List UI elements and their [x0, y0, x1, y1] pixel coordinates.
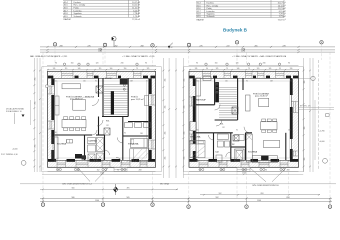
svg-text:150: 150	[124, 68, 127, 70]
stair stringer dark bar	[111, 91, 114, 114]
svg-text:Łazienka: Łazienka	[74, 10, 83, 12]
wc fixtures left mid	[125, 123, 151, 128]
left margin bubble	[21, 161, 26, 166]
svg-text:140: 140	[78, 68, 81, 70]
bathroom fixtures left building	[88, 138, 104, 162]
svg-text:11,21 m²: 11,21 m²	[132, 7, 140, 10]
svg-text:90: 90	[145, 62, 147, 64]
couch right building	[246, 95, 251, 111]
svg-text:12: 12	[171, 47, 173, 49]
svg-text:Łazienka: Łazienka	[207, 11, 216, 13]
svg-text:Budynek B: Budynek B	[223, 28, 248, 33]
svg-text:+0,000: +0,000	[319, 141, 325, 143]
svg-text:298: 298	[60, 45, 63, 47]
svg-text:205: 205	[54, 161, 57, 163]
svg-text:75: 75	[226, 68, 228, 70]
living room table right building	[259, 98, 269, 106]
svg-text:90: 90	[206, 68, 208, 70]
svg-text:90: 90	[146, 81, 148, 83]
svg-text:pow. 11,21 m²: pow. 11,21 m²	[131, 98, 144, 101]
svg-text:132: 132	[106, 125, 109, 127]
svg-text:130: 130	[290, 68, 293, 70]
wardrobe right building top-left room	[196, 78, 201, 96]
stairs right building	[219, 87, 237, 117]
svg-text:KUCHNIA: KUCHNIA	[57, 143, 67, 146]
svg-text:90: 90	[288, 161, 290, 163]
svg-text:265: 265	[35, 102, 37, 105]
svg-text:135: 135	[53, 68, 56, 70]
svg-text:72,19 m²: 72,19 m²	[278, 18, 286, 21]
svg-text:268: 268	[130, 81, 133, 83]
svg-text:365: 365	[304, 158, 306, 161]
windows left building top (frame line pairs)	[62, 72, 142, 79]
bottom grid chain	[40, 198, 332, 201]
wall hatch band left building	[48, 71, 156, 167]
small level marks on top band	[168, 46, 170, 49]
wall poché segments right building	[189, 76, 298, 162]
svg-text:HOL: HOL	[106, 121, 110, 123]
svg-text:115: 115	[99, 68, 102, 70]
top dimension chain lines	[40, 47, 335, 52]
svg-text:120: 120	[96, 62, 99, 64]
svg-text:120: 120	[257, 68, 260, 70]
svg-text:268: 268	[140, 133, 143, 135]
svg-text:230: 230	[263, 62, 266, 64]
baluster circles	[123, 80, 125, 82]
svg-text:90: 90	[265, 170, 267, 172]
svg-text:POZ. TERENU -0,30: POZ. TERENU -0,30	[1, 154, 18, 156]
wardrobe strip left wall	[55, 96, 59, 115]
svg-text:1,73 m²: 1,73 m²	[279, 15, 286, 18]
svg-text:WIATROŁAP: WIATROŁAP	[196, 99, 207, 102]
roof overhang outline right	[184, 67, 304, 172]
svg-text:345: 345	[164, 106, 166, 109]
survey diamond left	[113, 184, 118, 195]
svg-text:+0,000: +0,000	[12, 149, 18, 151]
svg-text:RAZEM: RAZEM	[197, 18, 204, 21]
svg-text:ŁAZ.: ŁAZ.	[216, 151, 220, 154]
svg-text:95: 95	[279, 68, 281, 70]
svg-text:1,73 m²: 1,73 m²	[133, 15, 140, 18]
vent stack left building	[96, 86, 103, 93]
svg-text:SP. WYL. 2%: SP. WYL. 2%	[300, 106, 311, 108]
svg-text:HOL: HOL	[220, 124, 224, 126]
right vertical dimension lines	[304, 58, 319, 172]
svg-text:281: 281	[255, 45, 258, 47]
svg-text:115: 115	[65, 68, 68, 70]
vent stack right building	[232, 107, 238, 114]
svg-text:140: 140	[237, 68, 240, 70]
room labels right building	[190, 92, 270, 153]
svg-text:268: 268	[288, 130, 291, 132]
wall hatch band right building	[189, 71, 299, 167]
wc/pantry fixtures right building	[235, 135, 245, 162]
svg-text:90: 90	[196, 62, 198, 64]
svg-text:90: 90	[124, 133, 126, 135]
svg-text:+2,780: +2,780	[319, 130, 325, 132]
svg-text:10,17 m²: 10,17 m²	[132, 1, 140, 4]
beds left building	[130, 149, 149, 162]
svg-text:90: 90	[288, 62, 290, 64]
svg-text:265: 265	[35, 78, 37, 81]
svg-text:365: 365	[304, 81, 306, 84]
dimension row below right building	[199, 170, 289, 172]
svg-text:362: 362	[54, 81, 57, 83]
svg-text:152: 152	[86, 161, 89, 163]
svg-text:Schowek: Schowek	[207, 16, 215, 18]
svg-text:135: 135	[195, 68, 198, 70]
svg-text:75: 75	[136, 68, 138, 70]
windows right building bottom	[199, 160, 288, 167]
svg-text:Hol + schody: Hol + schody	[74, 5, 86, 7]
inner wall face left building	[55, 78, 149, 160]
outer wall right building	[189, 71, 299, 167]
svg-text:268: 268	[126, 161, 129, 163]
door arcs left building	[92, 99, 123, 163]
couch left building living	[62, 84, 81, 89]
windows right building sides	[189, 97, 298, 156]
svg-text:278: 278	[283, 45, 286, 47]
left vertical dimension lines	[31, 58, 40, 172]
svg-text:100: 100	[110, 68, 113, 70]
svg-text:276: 276	[200, 45, 203, 47]
wardrobe bedroom right building	[190, 122, 196, 131]
desk in pokoj	[145, 96, 149, 106]
room schedule table A (top-left)	[63, 0, 139, 17]
stairs left building	[104, 85, 128, 115]
svg-text:120: 120	[236, 62, 239, 64]
svg-text:Sypialnia: Sypialnia	[74, 13, 83, 15]
svg-text:90: 90	[55, 62, 57, 64]
lower dim line right building	[184, 173, 304, 175]
svg-text:120: 120	[225, 81, 228, 83]
svg-text:230: 230	[121, 62, 124, 64]
room schedule table B (top-right)	[196, 0, 284, 18]
svg-text:240: 240	[54, 132, 57, 134]
svg-text:10,17 m²: 10,17 m²	[278, 2, 286, 5]
right margin annotations	[300, 106, 325, 144]
dining table left building	[62, 120, 86, 128]
svg-text:345: 345	[164, 79, 166, 82]
svg-text:272: 272	[227, 45, 230, 47]
room labels left building	[57, 78, 144, 146]
svg-text:1164: 1164	[100, 173, 104, 175]
north arrow	[112, 37, 116, 47]
stair stringer dark bar right	[215, 82, 219, 102]
svg-text:345: 345	[164, 157, 166, 160]
svg-text:150: 150	[215, 62, 218, 64]
svg-text:OZN. OKIEN DWUSTRONNYCH 1-4: OZN. OKIEN DWUSTRONNYCH 1-4	[62, 183, 92, 185]
svg-text:+ 2. NAD. OKNA POZ NADPR. +2,2: + 2. NAD. OKNA POZ NADPR. +2,295	[122, 55, 154, 58]
svg-text:90: 90	[95, 81, 97, 83]
leader arrows left building	[78, 168, 286, 182]
svg-text:818: 818	[287, 197, 290, 199]
svg-text:SYPIALNIA: SYPIALNIA	[128, 143, 139, 146]
kitchen fixtures left building	[67, 140, 73, 144]
svg-text:1176: 1176	[241, 51, 245, 53]
svg-text:90: 90	[117, 170, 119, 172]
svg-text:592: 592	[216, 197, 219, 199]
axis bubble on left wall	[45, 85, 48, 88]
svg-text:90: 90	[290, 81, 292, 83]
svg-text:592: 592	[219, 193, 222, 195]
svg-text:90: 90	[106, 161, 108, 163]
svg-text:1104: 1104	[257, 200, 261, 202]
svg-text:11,21 m²: 11,21 m²	[278, 7, 286, 10]
svg-text:+ 2. NAD. OKNA POZ NADPR. + NA: + 2. NAD. OKNA POZ NADPR. + NAD. OKNA PO…	[232, 55, 287, 58]
tick marks on top chains	[47, 46, 300, 53]
windows right building top (frame line pairs)	[203, 72, 285, 79]
svg-text:75: 75	[248, 68, 250, 70]
top grid bubbles	[53, 41, 323, 47]
svg-text:205: 205	[196, 161, 199, 163]
dining table right building	[261, 122, 278, 130]
door arcs right building	[209, 105, 251, 158]
svg-text:560: 560	[72, 188, 75, 190]
left margin annotations	[1, 108, 24, 156]
svg-text:ŁAZIENKA: ŁAZIENKA	[89, 140, 98, 143]
svg-text:FOLIA KUBEŁK. 10: FOLIA KUBEŁK. 10	[6, 110, 22, 113]
scattered dim texts right building	[196, 81, 292, 163]
top dim numbers	[60, 45, 286, 52]
svg-text:505: 505	[127, 197, 130, 199]
svg-text:120: 120	[83, 81, 86, 83]
long site line under buildings	[20, 183, 336, 185]
svg-text:150: 150	[71, 62, 74, 64]
svg-text:152: 152	[226, 161, 229, 163]
window designator circles below right building	[199, 168, 285, 170]
svg-text:268: 268	[141, 45, 144, 47]
svg-text:pow. 28,95 m²: pow. 28,95 m²	[70, 98, 83, 101]
svg-text:268: 268	[270, 81, 273, 83]
windows left building sides	[48, 86, 156, 149]
svg-text:10,11 m²: 10,11 m²	[132, 4, 140, 7]
svg-text:Schowek: Schowek	[74, 16, 82, 18]
dimension line above left building wall	[47, 65, 156, 67]
wall poché segments left building	[48, 76, 155, 162]
terrace line below buildings	[48, 171, 156, 173]
svg-text:SCHODY: SCHODY	[105, 78, 113, 80]
svg-text:Kuchnia: Kuchnia	[207, 3, 215, 5]
svg-text:SYPIALNIA: SYPIALNIA	[190, 136, 201, 139]
svg-text:Pokój: Pokój	[74, 8, 80, 10]
windows left building bottom	[57, 160, 147, 167]
svg-text:580: 580	[72, 197, 75, 199]
inner wall face right building	[196, 78, 292, 160]
interior walls right building	[196, 78, 286, 160]
svg-text:125: 125	[216, 68, 219, 70]
svg-text:Kuchnia: Kuchnia	[74, 2, 82, 4]
vertical grid dashed lines	[43, 44, 330, 198]
svg-text:265: 265	[35, 145, 37, 148]
svg-text:240: 240	[196, 130, 199, 132]
lower dim line left building	[42, 173, 162, 175]
bed right building	[190, 140, 205, 157]
svg-text:362: 362	[196, 81, 199, 83]
svg-text:pow. 21,35 m²: pow. 21,35 m²	[255, 95, 268, 98]
svg-text:818: 818	[261, 193, 264, 195]
interior perimeter dim lines left building	[57, 81, 147, 159]
interior walls left building	[55, 78, 149, 160]
svg-text:105: 105	[269, 68, 272, 70]
table A row texts	[64, 1, 141, 21]
svg-text:152: 152	[97, 170, 100, 172]
svg-text:90: 90	[246, 81, 248, 83]
scattered dim texts left building	[54, 81, 148, 163]
svg-text:NAD. OKNA RB-2 POZIOM NADPR. +: NAD. OKNA RB-2 POZIOM NADPR. +2,295	[30, 55, 67, 58]
leader texts under buildings	[62, 182, 279, 187]
living room table	[73, 99, 86, 110]
kitchen fixtures right building	[246, 134, 252, 162]
dimension line above right building wall	[189, 65, 299, 67]
svg-text:276: 276	[88, 45, 91, 47]
outer wall left building	[48, 71, 156, 167]
svg-text:72,19 m²: 72,19 m²	[132, 18, 140, 21]
svg-text:RAZEM: RAZEM	[64, 18, 71, 21]
svg-text:125: 125	[147, 68, 150, 70]
svg-text:7,78 m²: 7,78 m²	[133, 12, 140, 15]
roof overhang outline left	[42, 67, 162, 172]
svg-text:268: 268	[139, 170, 142, 172]
svg-text:6,15 m²: 6,15 m²	[279, 10, 286, 13]
middle vertical dimension lines	[163, 58, 183, 178]
small dim line with diamond (left)	[40, 188, 178, 190]
svg-text:6,15 m²: 6,15 m²	[133, 9, 140, 12]
dimension row below left building	[57, 170, 141, 172]
bathroom fixtures right building middle	[216, 134, 230, 162]
svg-text:10,11 m²: 10,11 m²	[278, 4, 286, 7]
svg-text:1104: 1104	[95, 200, 99, 202]
bottom grid bubbles	[41, 203, 331, 208]
svg-text:Pokój: Pokój	[207, 8, 213, 10]
svg-text:365: 365	[304, 127, 306, 130]
interior perimeter dim lines right building	[198, 81, 290, 159]
svg-text:132: 132	[222, 127, 225, 129]
svg-text:NR. OKNA: NR. OKNA	[160, 182, 169, 185]
window designator circles below left building	[56, 168, 126, 170]
svg-text:262: 262	[115, 45, 118, 47]
svg-text:1164: 1164	[98, 51, 102, 53]
svg-text:495: 495	[127, 188, 130, 190]
svg-text:1176: 1176	[242, 173, 246, 175]
svg-text:KUCHNIA: KUCHNIA	[248, 151, 258, 154]
svg-text:Hol + schody: Hol + schody	[207, 5, 219, 7]
small dim line right building	[200, 194, 320, 196]
svg-text:268: 268	[287, 170, 290, 172]
svg-text:OZN. OKIEN DWUSTRONNYCH: OZN. OKIEN DWUSTRONNYCH	[252, 185, 279, 187]
table B row texts	[197, 2, 286, 22]
svg-text:90: 90	[236, 130, 238, 132]
svg-text:345: 345	[164, 132, 166, 135]
labels under top chain	[30, 55, 287, 58]
